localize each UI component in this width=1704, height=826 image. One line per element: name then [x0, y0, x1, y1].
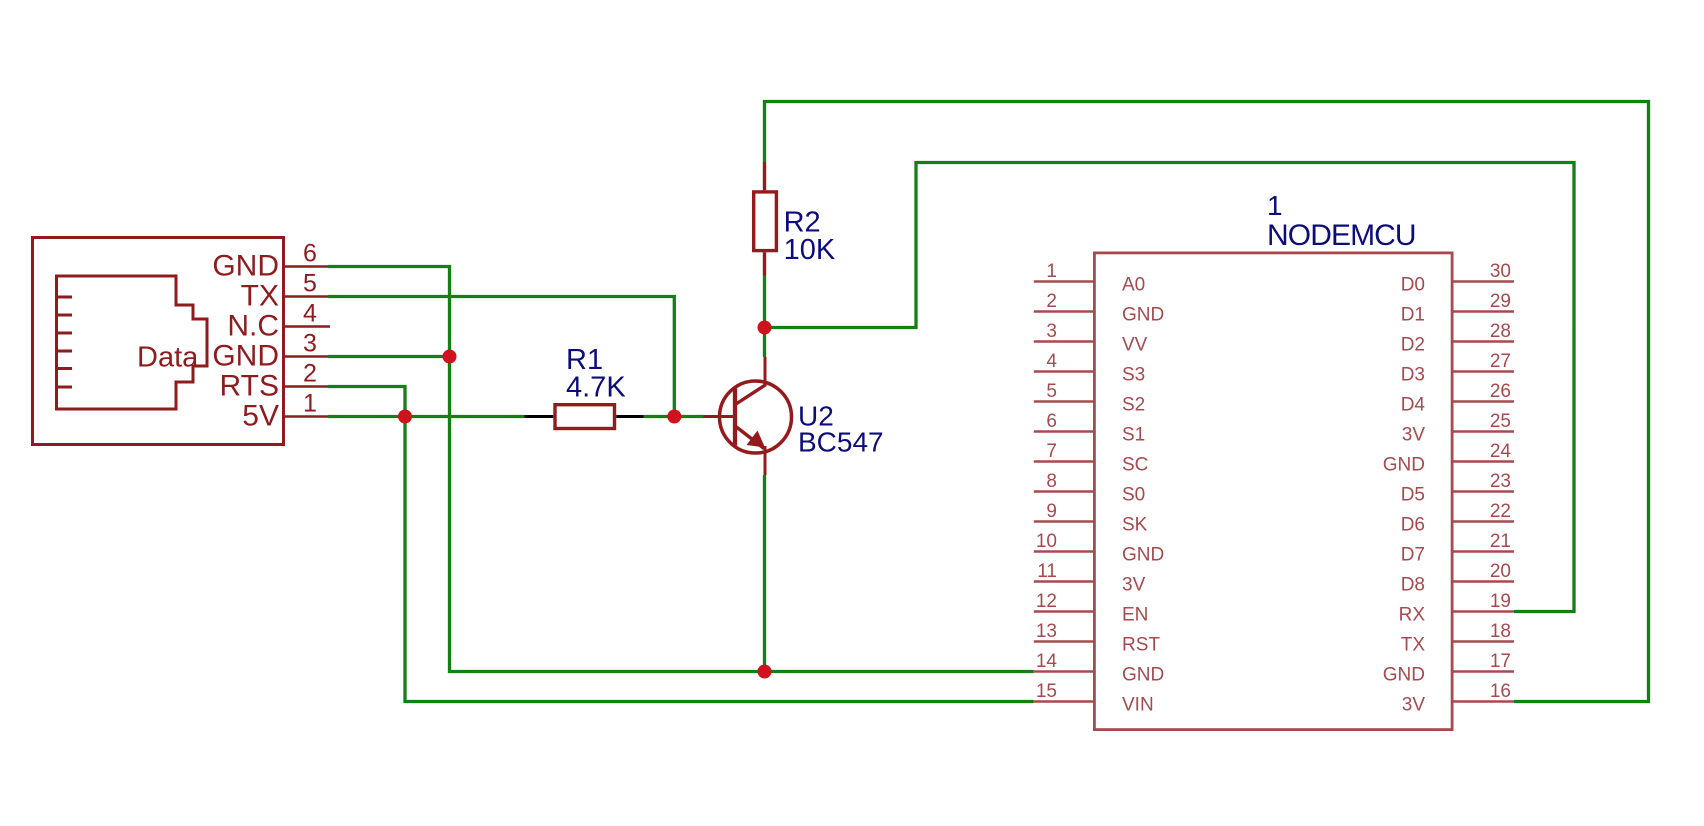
svg-text:3V: 3V: [1402, 425, 1426, 446]
pin 5 S2 stub: [1034, 400, 1093, 403]
wire collector junction to NodeMCU RX pin19: [765, 163, 1575, 612]
nodemcu right pins: [1454, 282, 1515, 702]
svg-text:SC: SC: [1122, 455, 1148, 476]
wire pin3 GND branch: [328, 355, 450, 358]
pin 18 TX stub: [1454, 640, 1515, 643]
pin 24 GND stub: [1454, 460, 1515, 463]
svg-text:S0: S0: [1122, 485, 1145, 506]
transistor U2 emitter arrow: [747, 431, 766, 448]
nodemcu left pins: [1034, 282, 1093, 702]
pin 10 GND stub: [1034, 550, 1093, 553]
svg-text:11: 11: [1037, 561, 1057, 582]
transistor U2 collector lead: [764, 357, 767, 385]
wire R2 bottom to collector junction: [763, 276, 766, 358]
svg-text:D3: D3: [1401, 365, 1425, 386]
svg-text:21: 21: [1490, 531, 1511, 552]
svg-text:1: 1: [1267, 190, 1283, 221]
connector J1 jack outline: [57, 276, 208, 409]
wire R1 right to junction to base: [644, 415, 705, 418]
connector pin 6 GND: [212, 240, 328, 283]
svg-text:NODEMCU: NODEMCU: [1267, 219, 1416, 252]
pin 27 D3 stub: [1454, 370, 1515, 373]
svg-text:3V: 3V: [1122, 575, 1146, 596]
junction emitter/GND rail: [758, 665, 772, 679]
transistor U2 base bar: [733, 389, 737, 446]
svg-text:1: 1: [1046, 261, 1057, 282]
connector pin 2 RTS: [220, 360, 328, 403]
pin 20 D8 stub: [1454, 580, 1515, 583]
pin 15 VIN stub: [1034, 700, 1093, 703]
svg-text:17: 17: [1490, 651, 1511, 672]
wire net RTS (down to bottom, to NodeMCU pin15 VIN): [328, 387, 1034, 702]
svg-text:TX: TX: [1401, 635, 1426, 656]
svg-text:18: 18: [1490, 621, 1511, 642]
svg-text:3V: 3V: [1402, 695, 1426, 716]
svg-text:4: 4: [303, 300, 317, 328]
svg-text:D4: D4: [1401, 395, 1426, 416]
wire R2 top to NodeMCU 3V pin16: [765, 102, 1649, 702]
connector pin 3 GND: [212, 330, 328, 373]
resistor R2 body: [754, 192, 777, 251]
junction base/R1/TX: [667, 410, 681, 424]
svg-text:D1: D1: [1401, 305, 1425, 326]
R1 black lead right: [616, 415, 643, 418]
pin 3 VV stub: [1034, 340, 1093, 343]
svg-text:27: 27: [1490, 351, 1511, 372]
pin 6 S1 stub: [1034, 430, 1093, 433]
pin 11 3V stub: [1034, 580, 1093, 583]
svg-text:30: 30: [1490, 261, 1511, 282]
svg-text:7: 7: [1046, 441, 1057, 462]
svg-text:2: 2: [1046, 291, 1057, 312]
svg-text:EN: EN: [1122, 605, 1148, 626]
svg-text:N.C: N.C: [227, 310, 279, 343]
wire net GND (pin6 to vertical, down, to NodeMCU pin14): [328, 267, 1034, 672]
svg-text:19: 19: [1490, 591, 1511, 612]
pin 7 SC stub: [1034, 460, 1093, 463]
svg-text:4.7K: 4.7K: [566, 371, 626, 403]
pin 13 RST stub: [1034, 640, 1093, 643]
svg-text:1: 1: [303, 390, 317, 418]
resistor R2 top lead: [763, 162, 766, 190]
svg-text:GND: GND: [1122, 665, 1164, 686]
svg-text:TX: TX: [241, 280, 279, 313]
pin 25 3V stub: [1454, 430, 1515, 433]
svg-text:4: 4: [1046, 351, 1057, 372]
svg-text:GND: GND: [1383, 665, 1425, 686]
pin 2 GND stub: [1034, 310, 1093, 313]
transistor U2 collector diagonal: [736, 385, 766, 405]
resistor R2 bottom lead: [763, 252, 766, 275]
pin 16 3V stub: [1454, 700, 1515, 703]
wire net TX (pin5 to transistor base junction): [328, 297, 674, 417]
svg-text:GND: GND: [212, 340, 279, 373]
connector J1 contact ticks: [55, 297, 72, 387]
pin 9 SK stub: [1034, 520, 1093, 523]
svg-text:GND: GND: [212, 250, 279, 283]
svg-text:26: 26: [1490, 381, 1511, 402]
pin 22 D6 stub: [1454, 520, 1515, 523]
svg-text:VIN: VIN: [1122, 695, 1154, 716]
svg-text:24: 24: [1490, 441, 1512, 462]
nodemcu left pin numbers: [1036, 261, 1058, 702]
pin 21 D7 stub: [1454, 550, 1515, 553]
svg-text:S2: S2: [1122, 395, 1145, 416]
svg-text:25: 25: [1490, 411, 1511, 432]
svg-text:S3: S3: [1122, 365, 1145, 386]
svg-text:14: 14: [1036, 651, 1058, 672]
svg-text:5: 5: [303, 270, 317, 298]
pin 29 D1 stub: [1454, 310, 1515, 313]
svg-text:22: 22: [1490, 501, 1511, 522]
pin 4 S3 stub: [1034, 370, 1093, 373]
svg-text:28: 28: [1490, 321, 1511, 342]
junction RTS/5V: [398, 410, 412, 424]
connector J1 outer box: [33, 238, 284, 445]
svg-text:RX: RX: [1399, 605, 1426, 626]
nodemcu right pin names: [1383, 275, 1426, 716]
svg-text:3: 3: [303, 330, 317, 358]
svg-text:6: 6: [1046, 411, 1057, 432]
nodemcu right pin numbers: [1490, 261, 1512, 702]
nodemcu U1 box: [1094, 253, 1452, 730]
svg-text:10K: 10K: [784, 234, 836, 266]
connector pin 5 TX: [241, 270, 328, 313]
pin 23 D5 stub: [1454, 490, 1515, 493]
pin 8 S0 stub: [1034, 490, 1093, 493]
svg-text:GND: GND: [1122, 545, 1164, 566]
svg-text:29: 29: [1490, 291, 1511, 312]
connector pin 1 5V: [242, 390, 328, 433]
svg-text:D6: D6: [1401, 515, 1425, 536]
svg-text:Data: Data: [137, 341, 199, 373]
pin 12 EN stub: [1034, 610, 1093, 613]
transistor U2 base lead: [704, 415, 734, 418]
pin 30 D0 stub: [1454, 280, 1515, 283]
wire net 5V (pin1 to R1 left): [328, 415, 525, 418]
nodemcu left pin names: [1122, 275, 1164, 716]
svg-text:3: 3: [1046, 321, 1057, 342]
pin 17 GND stub: [1454, 670, 1515, 673]
svg-text:RTS: RTS: [220, 370, 279, 403]
svg-text:SK: SK: [1122, 515, 1148, 536]
svg-text:D5: D5: [1401, 485, 1425, 506]
junction pin3 GND branch: [443, 350, 457, 364]
svg-text:15: 15: [1036, 681, 1057, 702]
svg-text:D7: D7: [1401, 545, 1425, 566]
svg-text:RST: RST: [1122, 635, 1160, 656]
svg-text:D2: D2: [1401, 335, 1425, 356]
transistor U2 emitter lead: [764, 446, 767, 475]
svg-text:VV: VV: [1122, 335, 1148, 356]
svg-text:D0: D0: [1401, 275, 1425, 296]
R1 black lead left: [525, 415, 554, 418]
pin 1 A0 stub: [1034, 280, 1093, 283]
svg-text:13: 13: [1036, 621, 1057, 642]
svg-text:23: 23: [1490, 471, 1511, 492]
connector pin 4 N.C: [227, 300, 330, 343]
svg-text:12: 12: [1036, 591, 1057, 612]
svg-text:GND: GND: [1383, 455, 1425, 476]
svg-text:16: 16: [1490, 681, 1511, 702]
svg-text:8: 8: [1046, 471, 1057, 492]
svg-text:S1: S1: [1122, 425, 1145, 446]
svg-text:20: 20: [1490, 561, 1511, 582]
svg-text:9: 9: [1046, 501, 1057, 522]
svg-text:D8: D8: [1401, 575, 1425, 596]
pin 14 GND stub: [1034, 670, 1093, 673]
pin 26 D4 stub: [1454, 400, 1515, 403]
wire emitter to GND rail: [763, 475, 766, 672]
svg-text:5V: 5V: [242, 400, 279, 433]
svg-text:10: 10: [1036, 531, 1057, 552]
svg-text:BC547: BC547: [798, 427, 884, 458]
svg-text:2: 2: [303, 360, 317, 388]
svg-text:A0: A0: [1122, 275, 1145, 296]
pin 19 RX stub: [1454, 610, 1515, 613]
transistor U2 circle: [720, 381, 792, 453]
svg-text:6: 6: [303, 240, 317, 268]
resistor R1 body: [555, 405, 615, 429]
transistor U2 emitter diagonal: [737, 427, 765, 449]
pin 28 D2 stub: [1454, 340, 1515, 343]
junction R2/collector: [758, 321, 772, 335]
svg-text:GND: GND: [1122, 305, 1164, 326]
svg-text:5: 5: [1046, 381, 1057, 402]
